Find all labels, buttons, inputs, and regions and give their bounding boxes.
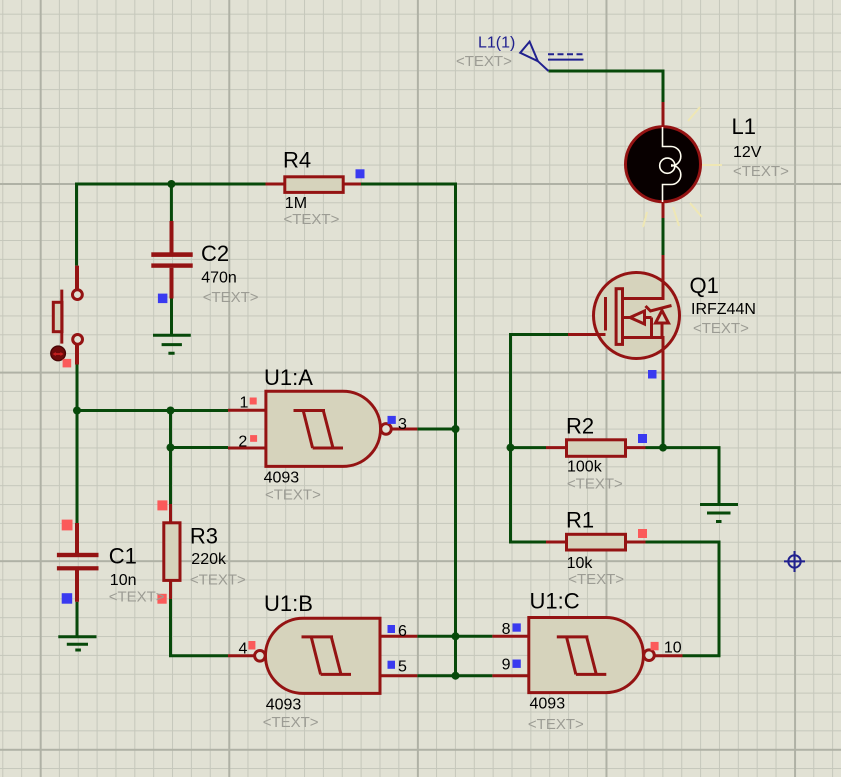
svg-text:2: 2 [238,433,247,450]
svg-text:1M: 1M [285,195,307,212]
svg-text:4093: 4093 [266,696,302,713]
svg-text:U1:C: U1:C [530,589,580,614]
svg-text:10n: 10n [110,572,137,589]
svg-text:U1:B: U1:B [264,591,313,616]
svg-text:<TEXT>: <TEXT> [263,714,319,731]
svg-text:<TEXT>: <TEXT> [109,588,165,605]
svg-text:C2: C2 [201,241,229,266]
svg-text:12V: 12V [733,144,762,161]
svg-text:C1: C1 [109,544,137,569]
svg-text:<TEXT>: <TEXT> [733,163,789,180]
svg-text:<TEXT>: <TEXT> [528,716,584,733]
svg-text:4093: 4093 [530,695,566,712]
svg-text:4093: 4093 [264,469,300,486]
svg-text:<TEXT>: <TEXT> [190,571,246,588]
svg-text:3: 3 [398,416,407,433]
svg-text:R2: R2 [566,414,594,439]
svg-text:L1(1): L1(1) [478,35,515,52]
svg-text:L1: L1 [732,114,756,139]
svg-text:<TEXT>: <TEXT> [265,487,321,504]
svg-text:6: 6 [398,623,407,640]
svg-text:<TEXT>: <TEXT> [568,571,624,588]
svg-text:R4: R4 [283,148,311,173]
svg-text:10: 10 [664,640,682,657]
svg-text:<TEXT>: <TEXT> [693,320,749,337]
svg-text:9: 9 [502,657,511,674]
svg-text:Q1: Q1 [690,273,719,298]
svg-text:10k: 10k [567,555,594,572]
svg-text:<TEXT>: <TEXT> [203,289,259,306]
svg-text:IRFZ44N: IRFZ44N [691,301,756,318]
svg-text:<TEXT>: <TEXT> [567,476,623,493]
svg-text:470n: 470n [201,270,237,287]
svg-text:4: 4 [239,641,248,658]
svg-text:U1:A: U1:A [264,365,313,390]
svg-text:8: 8 [502,621,511,638]
svg-text:5: 5 [398,659,407,676]
svg-text:220k: 220k [191,551,227,568]
svg-text:1: 1 [240,395,249,412]
svg-text:R1: R1 [566,508,594,533]
svg-text:R3: R3 [190,524,218,549]
svg-text:100k: 100k [567,459,603,476]
svg-text:<TEXT>: <TEXT> [456,53,512,70]
svg-text:<TEXT>: <TEXT> [284,211,340,228]
